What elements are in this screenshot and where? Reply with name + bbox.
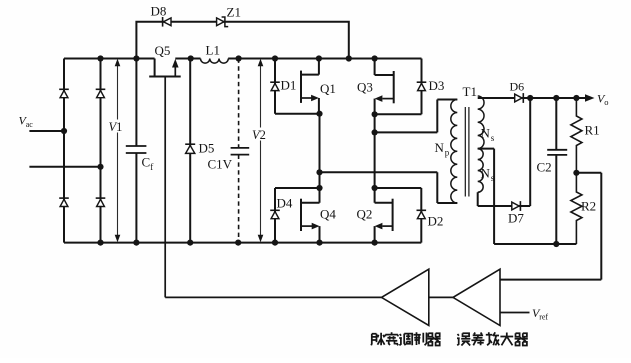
node left rail tap — [316, 169, 322, 175]
svg-text:V2: V2 — [252, 128, 266, 142]
svg-text:Q4: Q4 — [320, 207, 336, 222]
wire Q5 gate drive down to PWM — [165, 77, 381, 298]
node C2 top — [553, 95, 559, 101]
transistor Q4 — [301, 199, 320, 231]
svg-text:N: N — [481, 166, 491, 181]
svg-text:D5: D5 — [199, 141, 215, 156]
capacitor Cf — [126, 146, 147, 153]
op-amp PWM comparator — [382, 269, 429, 325]
node C2 bottom — [553, 241, 559, 247]
node R1-R2 junction — [573, 170, 579, 176]
wire Ns lower lead / D7 anode — [478, 192, 531, 206]
diode D8 — [163, 17, 171, 27]
wire D1 branch — [275, 59, 320, 114]
wire feedback to error amp — [500, 173, 601, 280]
resistor R2 — [571, 173, 582, 244]
svg-text:C1V: C1V — [208, 157, 233, 172]
wire C1 dashed branch — [238, 59, 240, 243]
diode D6 — [515, 93, 524, 103]
wire D4 branch — [275, 188, 320, 243]
label D1 — [281, 78, 297, 93]
wire output rail — [478, 97, 587, 99]
diode D4 — [270, 210, 280, 218]
label D5 — [199, 141, 215, 156]
svg-text:R1: R1 — [585, 123, 600, 138]
svg-text:f: f — [150, 162, 153, 172]
label Vref — [532, 306, 548, 322]
label D2 — [428, 214, 444, 229]
node AC-right junction — [97, 164, 103, 170]
svg-text:N: N — [481, 126, 491, 141]
diode D2 — [417, 210, 427, 218]
wire bridge left branch — [63, 59, 65, 243]
transformer T1 primary Np — [451, 100, 457, 204]
svg-text:Z1: Z1 — [227, 5, 241, 20]
wire AC input lower — [29, 166, 100, 168]
svg-text:D2: D2 — [428, 214, 444, 229]
transistor Q3 — [375, 59, 394, 115]
node L1 right — [236, 55, 242, 61]
label R1 — [585, 123, 600, 138]
node clamp return junction — [346, 55, 352, 61]
node right rail tap — [372, 129, 378, 135]
svg-text:D7: D7 — [508, 211, 524, 226]
label D3 — [429, 78, 445, 93]
wire bridge left leg — [319, 114, 321, 243]
label Cf — [142, 155, 154, 172]
diode bridge lower-right — [96, 198, 106, 206]
svg-text:o: o — [604, 97, 608, 107]
wire D2 branch — [375, 188, 422, 243]
wire top bus — [64, 58, 422, 60]
wire Cf branch — [135, 59, 137, 243]
svg-text:V1: V1 — [109, 120, 123, 134]
diode D7 — [512, 201, 521, 211]
wire output return rail — [494, 243, 576, 245]
caption PWM modulator (脉宽调制器) — [371, 332, 440, 345]
label D4 — [277, 196, 293, 211]
svg-text:D8: D8 — [151, 4, 167, 19]
terminal Vo arrow — [585, 94, 595, 102]
zener Z1 — [217, 17, 229, 27]
wire D5 branch — [189, 59, 191, 243]
svg-text:D6: D6 — [510, 80, 525, 94]
svg-text:N: N — [435, 140, 445, 155]
svg-text:C2: C2 — [537, 160, 552, 175]
svg-text:C: C — [142, 155, 151, 170]
label Z1 — [227, 5, 241, 20]
svg-text:Q3: Q3 — [357, 80, 373, 95]
node Cf bottom — [133, 240, 139, 246]
svg-text:D3: D3 — [429, 78, 445, 93]
label Q1 — [320, 81, 336, 96]
transformer secondary Ns upper — [478, 96, 484, 149]
diode bridge upper-left — [59, 89, 69, 97]
label C2 — [537, 160, 552, 175]
node D6 cathode — [527, 95, 533, 101]
label V2 — [252, 128, 268, 143]
node Cf top (D8 tap) — [133, 55, 139, 61]
label Ns upper — [481, 126, 495, 144]
wire amp link — [429, 296, 453, 298]
label R2 — [581, 199, 596, 214]
node Q2 drain tap — [372, 185, 378, 191]
wire bottom bus — [64, 242, 421, 244]
wire center tap — [478, 149, 494, 244]
node AC-left junction — [61, 128, 67, 134]
label Vac — [19, 114, 34, 130]
svg-text:ref: ref — [539, 313, 548, 322]
wire bridge right branch — [100, 59, 102, 243]
wire left-leg rail to Np bottom — [320, 172, 458, 203]
label T1 — [463, 84, 477, 99]
wire D7 cathode riser — [529, 98, 531, 206]
label C1V — [208, 157, 233, 172]
node L1 left — [188, 55, 194, 61]
wire bridge right leg — [374, 114, 376, 242]
wire AC input upper — [29, 130, 64, 132]
annotation V2 arrow — [258, 59, 264, 243]
node Q1 drain — [316, 55, 322, 61]
op-amp error amplifier — [453, 269, 500, 325]
label Ns lower — [481, 166, 495, 184]
label D8 — [151, 4, 167, 19]
transformer secondary Ns lower — [478, 149, 483, 193]
label L1 — [206, 43, 220, 58]
svg-text:L1: L1 — [206, 43, 220, 58]
capacitor C1 — [231, 148, 250, 155]
node bridge top-right — [97, 55, 103, 61]
label D6 — [510, 80, 525, 94]
svg-text:s: s — [491, 133, 495, 143]
node D5 bottom — [187, 240, 193, 246]
inductor L1 — [191, 59, 239, 64]
wire right-leg rail to Np top — [375, 100, 458, 133]
label Q5 — [155, 43, 171, 58]
svg-text:Q1: Q1 — [320, 81, 336, 96]
diode bridge upper-right — [96, 89, 106, 97]
node D1 top — [272, 55, 278, 61]
wire Vref input — [500, 312, 530, 314]
svg-text:R2: R2 — [581, 199, 596, 214]
resistor R1 — [571, 98, 582, 173]
label Vo — [597, 92, 608, 108]
svg-text:T1: T1 — [463, 84, 477, 99]
svg-text:D4: D4 — [277, 196, 293, 211]
diode D5 — [185, 144, 195, 153]
svg-text:D1: D1 — [281, 78, 297, 93]
label Q2 — [357, 207, 373, 222]
label Q3 — [357, 80, 373, 95]
transformer core — [465, 107, 469, 197]
caption error amplifier (误差放大器) — [457, 332, 528, 345]
diode bridge lower-left — [59, 198, 69, 206]
diode D1 — [270, 82, 280, 90]
wire top clamp loop (to D8/Z1) — [136, 22, 348, 59]
label Q4 — [320, 207, 336, 222]
node Q2 bottom — [372, 240, 378, 246]
label Np — [435, 140, 450, 158]
capacitor C2 — [547, 98, 567, 244]
node C1 bottom — [235, 240, 241, 246]
node bridge bottom-right — [97, 240, 103, 246]
svg-text:ac: ac — [26, 120, 34, 129]
node Q1 source junction — [316, 111, 322, 117]
label V1 — [108, 120, 124, 135]
node D4 tap — [316, 185, 322, 191]
node D4 bottom — [272, 240, 278, 246]
node Q4 bottom — [316, 240, 322, 246]
node Q3 source junction — [372, 111, 378, 117]
node R1 top — [573, 95, 579, 101]
node Q3 drain — [372, 55, 378, 61]
label D7 — [508, 211, 524, 226]
transistor Q5 — [149, 59, 181, 77]
wire D3 branch — [375, 59, 422, 115]
transistor Q2 — [375, 199, 393, 231]
svg-text:Q5: Q5 — [155, 43, 171, 58]
diode D3 — [417, 82, 427, 90]
transistor Q1 — [301, 59, 319, 114]
svg-text:Q2: Q2 — [357, 207, 373, 222]
annotation V1 arrow — [115, 59, 121, 243]
svg-text:p: p — [445, 148, 450, 158]
